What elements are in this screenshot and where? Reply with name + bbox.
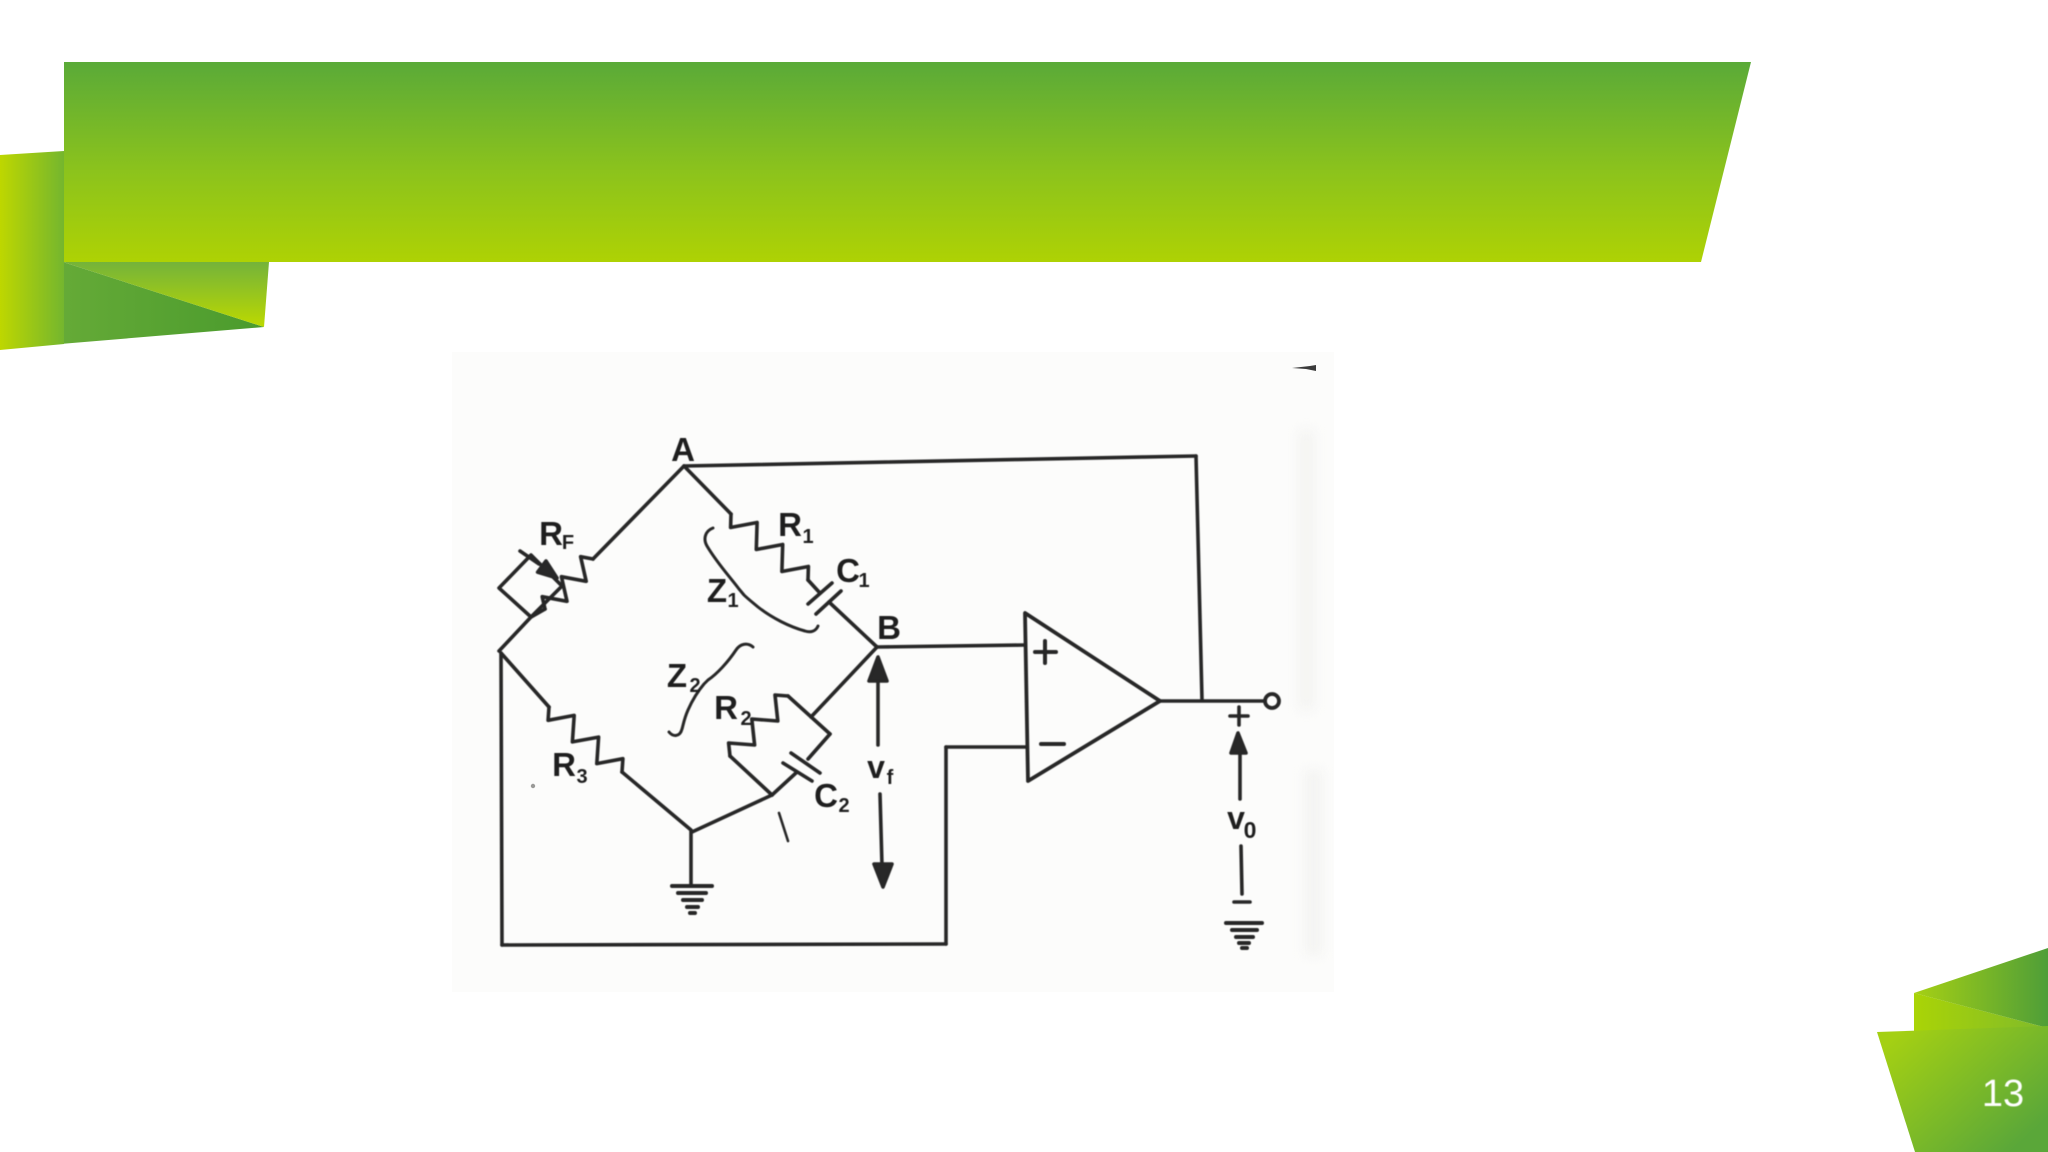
stray pen mark below C2 xyxy=(779,813,788,841)
op-amp plus sign xyxy=(1035,641,1056,663)
wire up to minus input xyxy=(944,747,948,944)
vf arrowhead down xyxy=(874,864,892,887)
capacitor C1 plate 1 xyxy=(808,583,832,604)
wire RF to west node xyxy=(499,609,545,651)
wire C1 to node B xyxy=(829,602,877,647)
svg-text:1: 1 xyxy=(727,590,738,612)
scan smudge streak lower right xyxy=(1305,770,1322,955)
scan smudge streak right xyxy=(1299,430,1314,710)
capacitor C2 plate 1 xyxy=(783,763,812,781)
decorative left vertical strip xyxy=(0,151,64,350)
wire B to op-amp plus input xyxy=(877,645,1025,647)
wire A to R1 xyxy=(684,466,731,514)
svg-text:R: R xyxy=(714,689,738,726)
wire into op-amp minus xyxy=(946,745,1027,749)
svg-text:R: R xyxy=(552,746,576,783)
svg-text:R: R xyxy=(778,506,802,543)
bottom-right decorative triangle (upper) xyxy=(1914,948,2048,1028)
scan stray mark top right xyxy=(1292,365,1316,371)
svg-text:13: 13 xyxy=(1982,1073,2024,1115)
svg-text:1: 1 xyxy=(802,526,813,548)
svg-text:2: 2 xyxy=(838,795,849,817)
svg-text:C: C xyxy=(814,777,838,814)
op-amp minus sign xyxy=(1041,742,1064,746)
vf arrowhead up xyxy=(869,657,887,681)
vf arrow shaft upper xyxy=(876,680,880,745)
v0 minus dash xyxy=(1234,900,1250,904)
svg-text:2: 2 xyxy=(689,675,700,697)
bottom-right decorative quad (lower) xyxy=(1877,1026,2048,1152)
v0 arrow shaft upper xyxy=(1238,752,1242,799)
decorative fold dark triangle below banner xyxy=(0,262,264,349)
R2C2 box edge SW xyxy=(730,756,772,795)
R2C2 box edge NE xyxy=(788,696,830,734)
wire A to top-right corner xyxy=(684,456,1196,466)
svg-text:2: 2 xyxy=(740,708,751,730)
svg-text:Z: Z xyxy=(667,657,687,694)
wire B to R2C2 box xyxy=(811,647,877,717)
svg-text:v: v xyxy=(867,749,885,785)
svg-text:F: F xyxy=(562,532,574,554)
svg-text:A: A xyxy=(671,431,695,468)
capacitor C1 plate 2 xyxy=(816,591,841,614)
ground symbol at v0 xyxy=(1226,923,1262,948)
vf arrow shaft lower xyxy=(880,794,882,866)
svg-text:B: B xyxy=(877,609,901,646)
resistor RF zigzag xyxy=(542,557,593,609)
wire A to RF xyxy=(593,466,684,559)
wire ground stem xyxy=(689,831,693,884)
wire feedback vertical xyxy=(1196,456,1202,700)
wire R1 to C1 xyxy=(808,580,819,592)
svg-text:1: 1 xyxy=(858,570,869,592)
capacitor C2 plate 2 xyxy=(791,753,820,773)
top banner ribbon xyxy=(64,62,1751,262)
R2C2 box edge SE stub lower xyxy=(772,772,797,795)
scan speck xyxy=(531,784,535,788)
RF wiper arrowhead xyxy=(538,561,557,578)
scanned image paper background xyxy=(452,352,1334,992)
RF rheostat box xyxy=(499,555,562,617)
ground symbol main xyxy=(672,886,712,913)
resistor R2 zigzag xyxy=(729,695,788,756)
svg-text:0: 0 xyxy=(1244,817,1257,843)
v0 arrow shaft lower xyxy=(1241,846,1242,894)
wire op-amp output xyxy=(1160,699,1265,703)
wire west node vertical down xyxy=(501,653,502,945)
svg-text:C: C xyxy=(836,552,860,589)
svg-text:Z: Z xyxy=(707,572,727,609)
brace Z2 xyxy=(669,644,753,735)
v0 plus sign xyxy=(1230,707,1248,725)
svg-text:f: f xyxy=(887,767,894,789)
svg-text:3: 3 xyxy=(576,766,587,788)
bottom-right decorative wedge (bright) xyxy=(1914,993,2048,1042)
wire west node to R3 xyxy=(501,653,549,707)
resistor R1 zigzag xyxy=(731,514,809,580)
v0 arrowhead up xyxy=(1231,733,1246,753)
resistor R3 zigzag xyxy=(548,707,623,772)
op-amp U1 triangle xyxy=(1025,613,1160,781)
decorative fold light triangle below banner xyxy=(63,262,269,327)
brace Z1 xyxy=(705,528,818,632)
R2C2 box edge SE stub upper xyxy=(808,734,830,759)
wire bottom horizontal xyxy=(502,944,946,945)
svg-text:v: v xyxy=(1227,800,1245,836)
wire R3 to ground node xyxy=(622,772,691,830)
svg-text:R: R xyxy=(539,515,563,552)
output terminal circle xyxy=(1265,694,1279,708)
RF wiper arrow tail xyxy=(520,551,539,564)
wire box to ground node xyxy=(692,795,772,832)
